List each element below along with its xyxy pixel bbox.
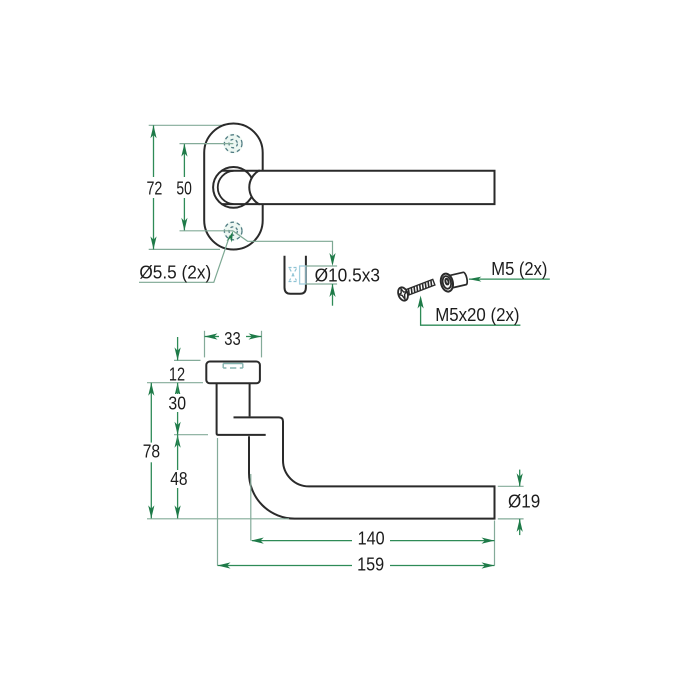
svg-text:Ø5.5 (2x): Ø5.5 (2x)	[139, 263, 211, 283]
svg-text:30: 30	[168, 393, 186, 413]
svg-text:M5x20 (2x): M5x20 (2x)	[435, 305, 519, 325]
svg-text:140: 140	[358, 529, 385, 549]
svg-text:78: 78	[143, 441, 160, 461]
svg-text:12: 12	[169, 365, 185, 385]
svg-text:48: 48	[170, 469, 187, 489]
svg-text:Ø19: Ø19	[508, 492, 540, 512]
svg-text:M5 (2x): M5 (2x)	[491, 259, 547, 279]
svg-text:Ø10.5x3: Ø10.5x3	[315, 265, 380, 285]
svg-text:159: 159	[357, 554, 384, 574]
svg-text:33: 33	[224, 329, 240, 349]
svg-text:72: 72	[146, 178, 162, 198]
svg-text:50: 50	[176, 178, 191, 198]
